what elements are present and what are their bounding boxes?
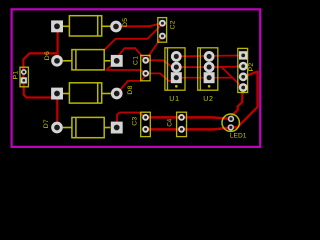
- svg-text:C1: C1: [133, 56, 140, 65]
- pad U2-1 round: [204, 51, 215, 62]
- wire D6 square pad to C1 top pad: [120, 48, 146, 60]
- pad U1-1 round: [171, 51, 182, 62]
- wire C1 bottom pad to U1 pad3: [146, 73, 177, 80]
- pad U2-2 round: [204, 62, 215, 73]
- wire D7 square pad to C3 top pad: [117, 113, 146, 124]
- LED1: [222, 114, 239, 131]
- diode D7: [63, 117, 111, 137]
- pad D7-1 round: [51, 122, 63, 134]
- pad C4-2: [178, 126, 185, 133]
- svg-text:D7: D7: [43, 119, 50, 128]
- wire bottom rail C3 bottom C4 bottom to LED1 bottom pad: [146, 127, 231, 129]
- wire D5 round pad to C2 top pad: [116, 23, 162, 26]
- pad P1-1 round: [21, 69, 27, 75]
- pad D6-2 square: [111, 55, 123, 67]
- pad P2-1 square: [239, 51, 247, 59]
- pad U1-2 round: [171, 62, 182, 73]
- wire P2 pin3 to LED1 bottom pad: [231, 72, 258, 128]
- pad D6-1 round: [51, 55, 63, 67]
- pad D7-2 square: [111, 122, 123, 134]
- capacitor C3: [141, 112, 151, 136]
- pad D5-2 round: [110, 21, 122, 33]
- diode D6: [63, 50, 111, 70]
- pad C1-2: [142, 70, 149, 77]
- connector P2: [238, 48, 248, 92]
- pad D5-1 square: [51, 20, 63, 32]
- pad C3-1: [142, 114, 149, 121]
- pad P1-2 square: [21, 77, 27, 83]
- wire bottom rail C3 top C4 top to LED1 top pad: [146, 117, 231, 119]
- diode D5: [63, 16, 111, 36]
- svg-text:D6: D6: [44, 51, 51, 60]
- svg-text:U1: U1: [169, 96, 180, 103]
- wire D8 round pad to C1 bottom pad: [117, 73, 146, 93]
- pad C4-1: [178, 114, 185, 121]
- wire U1 pad1 to U2 pad1 to P2 pin1: [176, 55, 243, 58]
- wire P1 pin2 to D8 square pad: [24, 80, 54, 97]
- wire D6 body corner to C2 top pad: [105, 24, 162, 49]
- IC U2: [198, 48, 218, 90]
- svg-text:D5: D5: [122, 18, 129, 27]
- svg-text:LED1: LED1: [230, 132, 247, 139]
- wire U1 pad2 to U2 pad2 to P2 pin2: [176, 66, 243, 67]
- wire C1 top pad to U1 pad2: [146, 60, 177, 67]
- svg-text:C4: C4: [167, 118, 173, 126]
- pad C2-1: [159, 20, 166, 27]
- U1 orientation dot: [175, 85, 178, 88]
- svg-text:P2: P2: [248, 62, 255, 71]
- svg-text:D8: D8: [127, 85, 134, 94]
- pad U1-3 square: [171, 72, 182, 83]
- pad P2-4 round: [239, 83, 248, 92]
- pad U2-3 square: [204, 72, 215, 83]
- wire branch U2 pad2 area to P2 pin4: [222, 67, 243, 87]
- wire D6 square pad to C1 bottom pad: [106, 65, 145, 74]
- pad D8-2 round: [111, 88, 123, 100]
- wire D8 square pad to D7 round pad vertical: [56, 94, 58, 128]
- wire C1 top pad to C2 bottom pad: [146, 36, 163, 60]
- svg-text:C3: C3: [131, 117, 138, 126]
- wire U1 pad3 to U2 pad3 stub: [176, 77, 233, 79]
- board outline: [12, 9, 261, 147]
- svg-text:U2: U2: [203, 96, 214, 103]
- capacitor C1: [141, 55, 150, 80]
- pad P2-2 round: [239, 62, 248, 71]
- IC U1: [165, 48, 185, 90]
- pad P2-3 round: [239, 72, 248, 81]
- capacitor C2: [158, 18, 167, 43]
- svg-text:C2: C2: [169, 20, 176, 29]
- pad LED1-A round: [228, 116, 234, 122]
- pad C1-1: [142, 57, 149, 64]
- capacitor C4: [177, 112, 187, 136]
- wire P2 pin4 to LED1 top pad: [231, 88, 243, 119]
- diode D8: [63, 83, 111, 103]
- svg-text:P1: P1: [13, 70, 20, 79]
- connector P1: [20, 67, 28, 87]
- pad LED1-K round: [228, 124, 234, 130]
- U2 orientation dot: [208, 85, 211, 88]
- wire D5 square pad to D6 round pad vertical: [56, 26, 58, 61]
- pad C2-2: [159, 33, 166, 40]
- wire branch to P1 pin1: [23, 53, 57, 80]
- pad C3-2: [142, 126, 149, 133]
- pad D8-1 square: [51, 88, 63, 100]
